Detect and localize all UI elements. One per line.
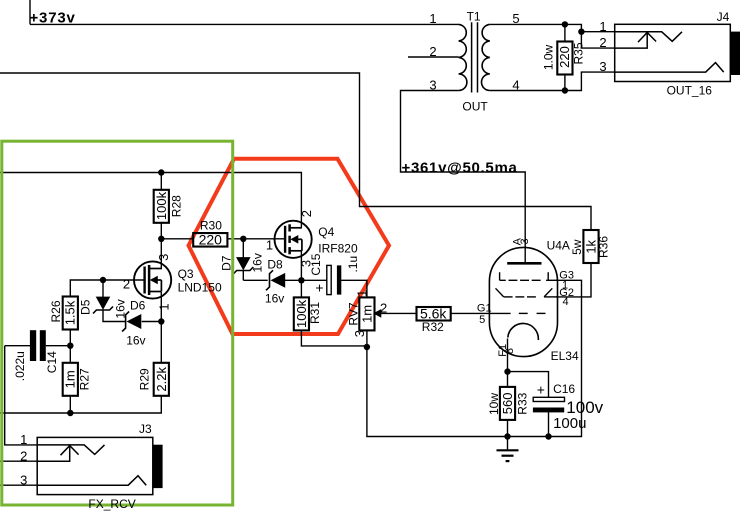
svg-text:R28: R28	[169, 195, 183, 217]
svg-text:2: 2	[20, 448, 27, 463]
svg-text:1: 1	[429, 11, 436, 26]
svg-text:8: 8	[504, 348, 516, 354]
svg-text:R27: R27	[78, 368, 92, 390]
svg-text:100k: 100k	[154, 191, 169, 220]
svg-text:2: 2	[299, 210, 314, 217]
svg-text:3: 3	[298, 260, 313, 267]
svg-text:5: 5	[512, 11, 519, 26]
svg-text:+361v@50.5ma: +361v@50.5ma	[402, 159, 518, 176]
svg-text:3: 3	[352, 330, 367, 337]
svg-text:.1u: .1u	[346, 256, 360, 273]
svg-text:1: 1	[355, 290, 370, 297]
svg-text:C16: C16	[553, 382, 575, 396]
svg-text:J3: J3	[139, 422, 152, 436]
svg-text:J4: J4	[717, 10, 730, 24]
svg-text:LND150: LND150	[178, 281, 222, 295]
svg-text:T1: T1	[467, 10, 481, 24]
svg-text:OUT: OUT	[462, 99, 488, 113]
svg-text:5w: 5w	[570, 239, 584, 255]
svg-text:R31: R31	[308, 302, 322, 324]
svg-text:16v: 16v	[126, 333, 145, 347]
svg-text:RV7: RV7	[346, 302, 360, 325]
svg-text:G1: G1	[477, 302, 492, 314]
svg-text:Q4: Q4	[318, 225, 334, 239]
svg-text:+373v: +373v	[30, 10, 76, 27]
svg-text:1m: 1m	[360, 305, 375, 323]
svg-text:5: 5	[479, 314, 485, 326]
svg-text:220: 220	[199, 231, 223, 247]
svg-text:1: 1	[266, 238, 273, 253]
svg-text:560: 560	[500, 393, 515, 415]
svg-text:D7: D7	[220, 255, 234, 271]
svg-text:3: 3	[429, 78, 436, 93]
svg-text:C14: C14	[45, 351, 59, 373]
svg-text:100u: 100u	[553, 415, 586, 432]
svg-text:100v: 100v	[566, 398, 603, 417]
svg-text:EL34: EL34	[551, 349, 579, 363]
svg-text:4: 4	[512, 78, 519, 93]
svg-text:4: 4	[563, 296, 569, 308]
svg-text:.022u: .022u	[13, 351, 27, 381]
svg-text:3: 3	[156, 254, 171, 261]
svg-text:R36: R36	[597, 236, 611, 258]
svg-text:OUT_16: OUT_16	[667, 84, 713, 98]
svg-text:2: 2	[123, 277, 130, 292]
svg-text:D6: D6	[130, 299, 146, 313]
svg-text:D8: D8	[267, 257, 283, 271]
svg-text:2: 2	[380, 301, 387, 316]
svg-text:10w: 10w	[487, 393, 501, 415]
svg-text:3: 3	[599, 59, 606, 74]
svg-text:2: 2	[599, 35, 606, 50]
svg-text:1: 1	[599, 19, 606, 34]
svg-text:2: 2	[429, 44, 436, 59]
svg-text:+: +	[537, 381, 545, 397]
svg-text:1.0w: 1.0w	[541, 44, 555, 70]
svg-text:16v: 16v	[113, 299, 127, 318]
svg-text:1m: 1m	[63, 370, 78, 388]
svg-text:3: 3	[519, 238, 531, 244]
svg-text:220: 220	[557, 46, 572, 68]
svg-text:1.5k: 1.5k	[63, 300, 78, 325]
svg-text:R33: R33	[516, 392, 530, 414]
svg-text:Q3: Q3	[178, 267, 194, 281]
svg-text:R32: R32	[422, 320, 444, 334]
svg-text:100k: 100k	[294, 299, 309, 328]
svg-text:U4A: U4A	[547, 238, 570, 252]
svg-text:2.2k: 2.2k	[154, 367, 169, 392]
svg-text:16v: 16v	[251, 253, 265, 272]
svg-text:1: 1	[156, 303, 171, 310]
svg-text:D5: D5	[79, 299, 93, 315]
svg-text:1: 1	[20, 432, 27, 447]
svg-text:16v: 16v	[265, 291, 284, 305]
svg-text:FX_RCV: FX_RCV	[88, 497, 135, 511]
svg-text:IRF820: IRF820	[318, 242, 358, 256]
svg-text:R35: R35	[572, 42, 586, 64]
svg-text:R26: R26	[49, 300, 63, 322]
svg-text:3: 3	[20, 472, 27, 487]
svg-text:R29: R29	[138, 368, 152, 390]
svg-text:5.6k: 5.6k	[420, 305, 447, 321]
svg-text:+: +	[315, 280, 323, 296]
